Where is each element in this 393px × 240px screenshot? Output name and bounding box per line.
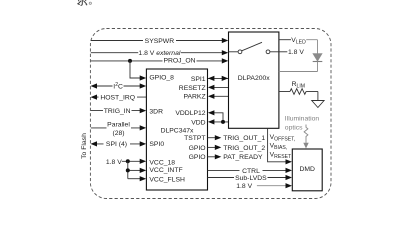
- svg-text:1.8 V: 1.8 V: [106, 159, 122, 166]
- node junction dot 2: [126, 168, 130, 172]
- svg-text:SPI1: SPI1: [191, 76, 206, 83]
- svg-text:DLPA200x: DLPA200x: [238, 75, 271, 82]
- wire TRIG_IN: [91, 107, 146, 115]
- svg-text:RLIM: RLIM: [292, 81, 305, 89]
- svg-text:PARKZ: PARKZ: [183, 94, 205, 101]
- svg-text:VDD: VDD: [191, 119, 205, 126]
- svg-text:TRIG_OUT_2: TRIG_OUT_2: [223, 145, 265, 152]
- wire SPI1 bidirectional: [208, 76, 229, 81]
- wire SPI (4) bidirectional: [91, 140, 147, 148]
- wire SYSPWR: [91, 37, 229, 45]
- svg-text:1.8 V: 1.8 V: [288, 49, 304, 56]
- wire PAT_READY: [208, 154, 264, 161]
- svg-text:To Flash: To Flash: [81, 133, 88, 159]
- svg-text:I2C: I2C: [113, 82, 123, 91]
- node junction dot 1: [126, 159, 130, 163]
- resistor RLIM: [279, 81, 318, 100]
- wire I2C bidirectional: [91, 80, 147, 90]
- svg-text:PROJ_ON: PROJ_ON: [163, 57, 195, 64]
- text fragment (truncated Chinese sentence): [77, 0, 91, 5]
- svg-text:VRESET: VRESET: [270, 151, 292, 159]
- wire TRIG_OUT_1: [208, 135, 266, 142]
- wire HOST_IRQ: [91, 93, 147, 101]
- svg-text:TSTPT: TSTPT: [184, 135, 206, 142]
- svg-text:SYSPWR: SYSPWR: [145, 38, 175, 45]
- wire VLED output: [279, 36, 318, 54]
- svg-text:GPIO_8: GPIO_8: [149, 75, 174, 82]
- svg-text:VOFFSET,: VOFFSET,: [270, 134, 296, 142]
- wire Sub-LVDS: [208, 174, 293, 182]
- wire 1.8 V to VCC_18: [122, 159, 146, 164]
- ground: [312, 101, 324, 108]
- svg-text:VBIAS,: VBIAS,: [270, 143, 288, 151]
- svg-text:HOST_IRQ: HOST_IRQ: [100, 95, 135, 102]
- svg-text:(28): (28): [112, 130, 124, 137]
- svg-text:3DR: 3DR: [149, 109, 163, 116]
- wire PROJ_ON branch to GPIO_8: [130, 61, 146, 81]
- svg-text:DLPC347x: DLPC347x: [161, 127, 194, 134]
- wire VOFFSET/VBIAS/VRESET to DMD: [268, 128, 292, 164]
- DMD U3: [292, 149, 322, 191]
- label Illumination optics: [285, 116, 320, 132]
- wire PARKZ: [208, 94, 229, 99]
- label 1.8 V switched output: [279, 49, 304, 56]
- wire Parallel (28) bus: [91, 121, 146, 137]
- wire vertical 1.8 V rail: [127, 161, 129, 178]
- light path squiggle to DMD: [303, 125, 308, 149]
- svg-text:Illumination: Illumination: [285, 116, 320, 123]
- svg-text:VCC_FLSH: VCC_FLSH: [149, 176, 185, 183]
- svg-text:GPIO: GPIO: [189, 145, 206, 152]
- svg-text:1.8 V external: 1.8 V external: [138, 50, 180, 57]
- wire to VCC_INTF: [128, 168, 146, 173]
- wire 1.8 V external: [91, 49, 229, 57]
- svg-text:TRIG_IN: TRIG_IN: [104, 108, 131, 115]
- svg-text:CTRL: CTRL: [242, 168, 260, 175]
- svg-text:VCC_18: VCC_18: [149, 159, 175, 166]
- switch inside DLPA200x: [229, 42, 279, 53]
- svg-text:Sub-LVDS: Sub-LVDS: [235, 175, 267, 182]
- svg-text:DMD: DMD: [299, 166, 315, 173]
- svg-text:RESETZ: RESETZ: [179, 85, 206, 92]
- node junction VDD: [221, 120, 225, 124]
- svg-text:TRIG_OUT_1: TRIG_OUT_1: [223, 135, 265, 142]
- wire RESETZ: [208, 85, 229, 90]
- svg-text:Parallel: Parallel: [107, 122, 130, 129]
- svg-text:SPI (4): SPI (4): [106, 141, 127, 148]
- svg-text:VCC_INTF: VCC_INTF: [149, 167, 182, 174]
- svg-text:VDDLP12: VDDLP12: [175, 110, 205, 117]
- wire TRIG_OUT_2: [208, 145, 266, 152]
- LED D1: [279, 54, 322, 72]
- node junction on PROJ_ON: [128, 59, 132, 63]
- system boundary dashed border: [90, 29, 331, 199]
- svg-text:1.8 V: 1.8 V: [236, 183, 252, 190]
- svg-text:optics: optics: [285, 125, 303, 132]
- DLPC347x controller U1: [146, 69, 207, 190]
- wire CTRL: [208, 167, 293, 175]
- svg-text:PAT_READY: PAT_READY: [223, 154, 263, 161]
- wire VDD from DLPA: [208, 110, 229, 124]
- wire PROJ_ON: [91, 57, 229, 65]
- svg-text:SPI0: SPI0: [149, 141, 164, 148]
- svg-text:GPIO: GPIO: [189, 154, 206, 161]
- DLPA200x PMIC U2: [229, 32, 279, 128]
- wire 1.8 V to DMD: [236, 183, 292, 190]
- wire to VCC_FLSH: [128, 176, 146, 181]
